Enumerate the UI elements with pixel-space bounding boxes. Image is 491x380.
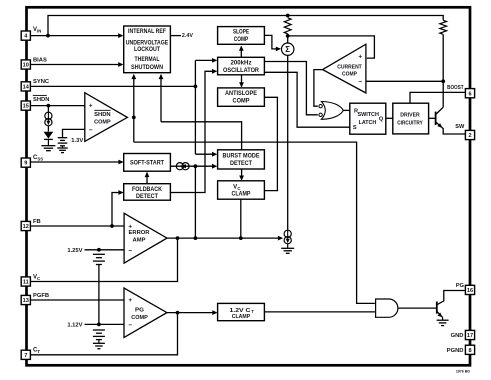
svg-text:S: S (353, 125, 357, 131)
svg-text:2.4V: 2.4V (182, 33, 193, 39)
svg-text:−: − (128, 247, 132, 254)
svg-text:GND: GND (451, 333, 464, 339)
svg-text:15: 15 (23, 104, 29, 110)
svg-text:ERROR: ERROR (129, 230, 151, 236)
svg-text:COMP: COMP (233, 98, 250, 104)
svg-text:C: C (237, 186, 240, 191)
svg-text:COMP: COMP (342, 71, 357, 77)
svg-text:6: 6 (468, 91, 471, 97)
svg-text:+: + (89, 103, 93, 110)
svg-text:DRIVER: DRIVER (400, 113, 420, 119)
svg-text:LATCH: LATCH (359, 120, 377, 126)
svg-text:OSCILLATOR: OSCILLATOR (223, 68, 260, 74)
svg-text:CLAMP: CLAMP (232, 314, 251, 320)
svg-text:CIRCUITRY: CIRCUITRY (397, 121, 423, 127)
svg-text:−: − (128, 322, 132, 329)
svg-text:13: 13 (23, 298, 29, 304)
svg-text:SHDN: SHDN (94, 112, 111, 118)
svg-text:T: T (251, 309, 254, 314)
svg-text:INTERNAL REF: INTERNAL REF (128, 29, 166, 35)
svg-text:11: 11 (23, 280, 29, 286)
svg-text:LOCKOUT: LOCKOUT (134, 47, 160, 53)
svg-text:16: 16 (467, 288, 473, 294)
svg-text:BURST MODE: BURST MODE (223, 154, 260, 160)
svg-text:DETECT: DETECT (136, 194, 158, 200)
svg-text:SW: SW (455, 124, 465, 130)
svg-text:VC: VC (33, 274, 40, 281)
svg-text:12: 12 (23, 224, 29, 230)
svg-text:PG: PG (456, 283, 464, 289)
svg-text:SWITCH: SWITCH (357, 112, 379, 118)
svg-text:THERMAL: THERMAL (135, 57, 160, 63)
svg-text:PGFB: PGFB (33, 293, 49, 299)
svg-text:2: 2 (468, 133, 471, 139)
svg-text:AMP: AMP (133, 238, 146, 244)
svg-text:1.25V: 1.25V (67, 248, 82, 254)
svg-text:CT: CT (33, 348, 40, 355)
svg-text:Q: Q (379, 117, 384, 123)
svg-text:PG: PG (135, 307, 145, 313)
svg-text:FB: FB (33, 219, 41, 225)
svg-text:7: 7 (24, 353, 27, 359)
svg-text:−: − (89, 127, 93, 134)
svg-text:10: 10 (23, 63, 29, 69)
svg-text:COMP: COMP (131, 315, 148, 321)
svg-text:COMP: COMP (234, 37, 249, 43)
svg-text:UNDERVOLTAGE: UNDERVOLTAGE (126, 41, 169, 47)
svg-text:+: + (358, 53, 362, 60)
svg-text:SYNC: SYNC (33, 79, 50, 85)
svg-text:9: 9 (24, 161, 27, 167)
svg-text:17: 17 (467, 333, 473, 339)
svg-text:VIN: VIN (33, 27, 41, 34)
svg-text:BIAS: BIAS (33, 57, 47, 63)
svg-text:CURRENT: CURRENT (337, 64, 362, 70)
svg-text:14: 14 (23, 85, 30, 91)
svg-text:8: 8 (468, 348, 471, 354)
svg-text:BOOST: BOOST (447, 85, 464, 91)
svg-text:CSS: CSS (33, 155, 43, 162)
svg-text:CLAMP: CLAMP (232, 192, 251, 198)
svg-text:COMP: COMP (94, 119, 111, 125)
svg-text:200kHz: 200kHz (231, 61, 252, 67)
svg-text:FOLDBACK: FOLDBACK (132, 187, 163, 193)
svg-text:1976 BD: 1976 BD (456, 369, 471, 373)
svg-text:+: + (128, 297, 132, 304)
svg-text:−: − (358, 78, 362, 85)
svg-text:DETECT: DETECT (230, 161, 252, 167)
svg-text:SOFT-START: SOFT-START (130, 161, 164, 167)
svg-text:1.12V: 1.12V (67, 323, 82, 329)
svg-text:Σ: Σ (285, 45, 290, 54)
svg-text:PGND: PGND (447, 348, 464, 354)
svg-text:ANTISLOPE: ANTISLOPE (225, 91, 257, 97)
svg-text:SHDN: SHDN (33, 97, 49, 103)
svg-text:1.3V: 1.3V (71, 138, 83, 144)
svg-text:SHUTDOWN: SHUTDOWN (131, 65, 163, 71)
svg-text:SLOPE: SLOPE (233, 30, 249, 36)
